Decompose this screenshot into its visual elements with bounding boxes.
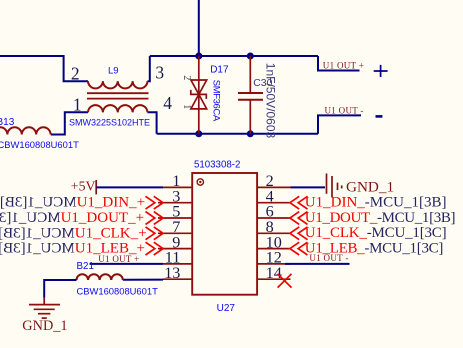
svg-text:MCU_1[3B]: MCU_1[3B]: [0, 241, 75, 257]
svg-text:U1_DOUT_-MCU_1[3B]: U1_DOUT_-MCU_1[3B]: [305, 210, 455, 226]
pin stubs right (2,4,6,8,10,12,14): [257, 187, 290, 279]
svg-text:5103308-2: 5103308-2: [194, 159, 240, 170]
wire: L9 pin 4 to bottom rail: [148, 112, 157, 134]
node: bottom rail / TVS junction: [195, 130, 202, 137]
svg-text:1: 1: [73, 95, 82, 115]
svg-text:CBW160808U601T: CBW160808U601T: [0, 139, 79, 150]
svg-text:U1 OUT -: U1 OUT -: [309, 253, 348, 263]
node: top rail / TVS junction: [195, 53, 202, 60]
wire: top-left input to L9 pin 2: [0, 56, 88, 81]
inductor B13: [0, 127, 51, 134]
TVS diode D17 body: [191, 80, 207, 94]
wire: pin 2 to GND_1 port: [291, 186, 326, 188]
wire: B13 to L9 pin 1: [51, 112, 88, 134]
svg-text:MCU_1[3B]: MCU_1[3B]: [0, 195, 77, 211]
svg-text:B13: B13: [0, 117, 15, 128]
wire: pin 13 to B21: [123, 279, 163, 281]
capacitor C30 leads: [249, 56, 251, 93]
svg-text:U1_CLK_+: U1_CLK_+: [75, 225, 147, 241]
pin 1 indicator dot: [197, 179, 203, 185]
svg-text:4: 4: [163, 93, 172, 113]
svg-text:D17: D17: [210, 64, 229, 75]
transformer L9 bottom winding: [88, 105, 147, 112]
svg-text:U27: U27: [217, 303, 236, 314]
transformer L9 core lines: [87, 92, 149, 94]
svg-text:14: 14: [266, 264, 282, 282]
svg-text:U1_CLK_-MCU_1[3C]: U1_CLK_-MCU_1[3C]: [305, 225, 447, 241]
off-sheet chevrons right (pins 4,6,8,10): [290, 196, 308, 255]
svg-text:2: 2: [71, 64, 80, 84]
wire: top rail: [150, 55, 318, 57]
svg-text:1: 1: [181, 104, 192, 109]
svg-text:U1 OUT -: U1 OUT -: [325, 105, 364, 115]
pin numbers right: [266, 172, 282, 282]
svg-text:MCU_1[3B]: MCU_1[3B]: [0, 210, 61, 226]
inductor B21: [77, 274, 123, 280]
TVS diode D17 lead: [198, 56, 200, 134]
svg-text:U1 OUT +: U1 OUT +: [98, 254, 139, 264]
wire: +5V to pin 1: [96, 186, 163, 188]
svg-text:U1_DIN_+: U1_DIN_+: [77, 195, 145, 211]
transformer L9 top winding: [88, 81, 147, 88]
svg-text:CBW160808U601T: CBW160808U601T: [77, 285, 159, 296]
wire: U1 OUT - stub: [318, 115, 361, 133]
power port GND_1 (right): [327, 174, 342, 198]
IC U27 body: [192, 173, 257, 295]
svg-text:B21: B21: [77, 261, 94, 272]
svg-text:L9: L9: [108, 65, 119, 76]
wire: pin 11 (U1 OUT +): [90, 263, 163, 265]
no-connect X (pin 14): [278, 274, 292, 288]
wire: L9 pin 3 riser to top rail: [148, 56, 150, 81]
svg-text:U1_DIN_-MCU_1[3B]: U1_DIN_-MCU_1[3B]: [305, 195, 447, 211]
wire: B21 to ground: [44, 280, 76, 298]
plus symbol: [374, 65, 388, 77]
pin stubs left (1,3,5,7,9,11,13): [158, 187, 192, 279]
wire: pin 12 (U1 OUT -): [285, 263, 350, 265]
wire: vertical to top edge: [198, 0, 200, 56]
svg-text:SMF36CA: SMF36CA: [210, 80, 221, 122]
svg-text:13: 13: [164, 264, 180, 282]
pin numbers left: [164, 172, 180, 282]
ground GND_1 (left): [29, 298, 60, 319]
svg-text:2: 2: [181, 75, 192, 80]
off-sheet chevrons left (pins 3,5,7,9): [146, 196, 164, 255]
svg-text:+5V: +5V: [71, 179, 96, 194]
capacitor C30 plates: [238, 92, 263, 94]
svg-text:MCU_1[3B]: MCU_1[3B]: [0, 225, 75, 241]
svg-text:U1 OUT +: U1 OUT +: [323, 61, 364, 71]
svg-text:GND_1: GND_1: [22, 318, 67, 334]
svg-text:3: 3: [155, 62, 164, 82]
wire: bottom rail: [157, 133, 318, 135]
node: bottom rail / C30 junction: [247, 130, 254, 137]
svg-text:GND_1: GND_1: [346, 178, 394, 195]
svg-text:SMW3225S102HTE: SMW3225S102HTE: [69, 117, 150, 127]
svg-text:1nF/50V/0603: 1nF/50V/0603: [264, 63, 278, 139]
minus symbol: [376, 115, 383, 118]
node: top rail / C30 junction: [247, 53, 254, 60]
svg-text:U1_DOUT_+: U1_DOUT_+: [61, 210, 144, 226]
wire: U1 OUT + stub: [318, 56, 360, 71]
